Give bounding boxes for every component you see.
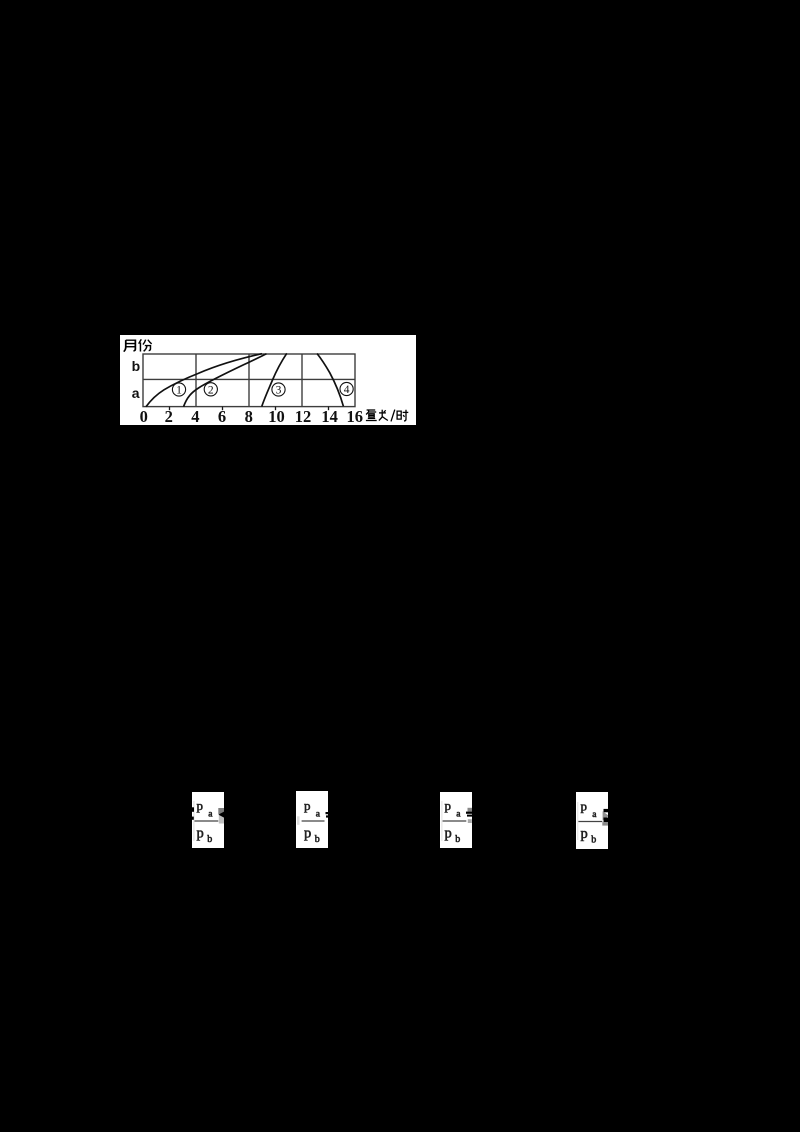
svg-text:p: p bbox=[304, 825, 311, 841]
svg-text:3: 3 bbox=[276, 385, 282, 397]
svg-text:p: p bbox=[445, 798, 452, 813]
svg-text:16: 16 bbox=[347, 407, 364, 425]
fraction box 2: pa/pb with = mark bbox=[296, 791, 328, 848]
svg-text:b: b bbox=[591, 834, 596, 845]
slash / bbox=[391, 410, 395, 422]
axis unit 昼 (zhou) bbox=[366, 410, 377, 421]
svg-text:p: p bbox=[581, 798, 588, 813]
svg-text:6: 6 bbox=[218, 407, 226, 425]
svg-text:p: p bbox=[197, 825, 204, 841]
svg-text:b: b bbox=[315, 834, 320, 845]
svg-text:12: 12 bbox=[295, 407, 312, 425]
svg-text:a: a bbox=[208, 809, 213, 819]
svg-text:p: p bbox=[197, 798, 204, 813]
fraction box 1: pa/pb with < mark bbox=[192, 792, 224, 848]
chart: day length vs month bbox=[120, 335, 416, 425]
axis label 月 (yue) bbox=[124, 340, 136, 351]
svg-text:a: a bbox=[132, 385, 140, 401]
fraction box 3: pa/pb with = mark bbox=[440, 792, 472, 848]
svg-text:a: a bbox=[316, 809, 321, 819]
axis label 份 (fen) bbox=[139, 339, 152, 351]
svg-text:a: a bbox=[456, 809, 461, 819]
axis unit 长 (chang) bbox=[379, 410, 388, 421]
svg-text:b: b bbox=[207, 834, 212, 845]
curve 4 bbox=[317, 354, 343, 407]
svg-text:b: b bbox=[132, 358, 141, 374]
svg-text:p: p bbox=[581, 825, 588, 841]
curve 1 bbox=[146, 354, 262, 407]
svg-text:4: 4 bbox=[344, 384, 350, 396]
circled label 1 bbox=[172, 383, 185, 397]
svg-text:p: p bbox=[304, 798, 311, 813]
circled label 4 bbox=[340, 382, 353, 396]
axis unit 时 (shi) bbox=[397, 410, 408, 421]
fraction box 4: pa/pb with > mark bbox=[576, 792, 608, 849]
small ticks below axis at 2,6,10,14 bbox=[170, 407, 329, 411]
curve 3 bbox=[262, 353, 287, 406]
svg-text:4: 4 bbox=[191, 407, 199, 425]
svg-text:1: 1 bbox=[176, 385, 182, 397]
grid rectangle and lines bbox=[143, 354, 355, 407]
svg-text:2: 2 bbox=[208, 385, 214, 397]
svg-text:b: b bbox=[455, 834, 460, 845]
circled label 2 bbox=[204, 383, 217, 397]
svg-text:2: 2 bbox=[165, 407, 173, 425]
svg-text:14: 14 bbox=[321, 407, 338, 425]
svg-text:a: a bbox=[592, 809, 597, 819]
svg-text:10: 10 bbox=[268, 407, 285, 425]
svg-text:8: 8 bbox=[245, 407, 253, 425]
circled label 3 bbox=[272, 383, 285, 397]
x axis numbers bbox=[140, 407, 363, 426]
svg-text:0: 0 bbox=[140, 407, 148, 425]
svg-text:p: p bbox=[445, 825, 452, 841]
curve 2 bbox=[184, 354, 267, 407]
